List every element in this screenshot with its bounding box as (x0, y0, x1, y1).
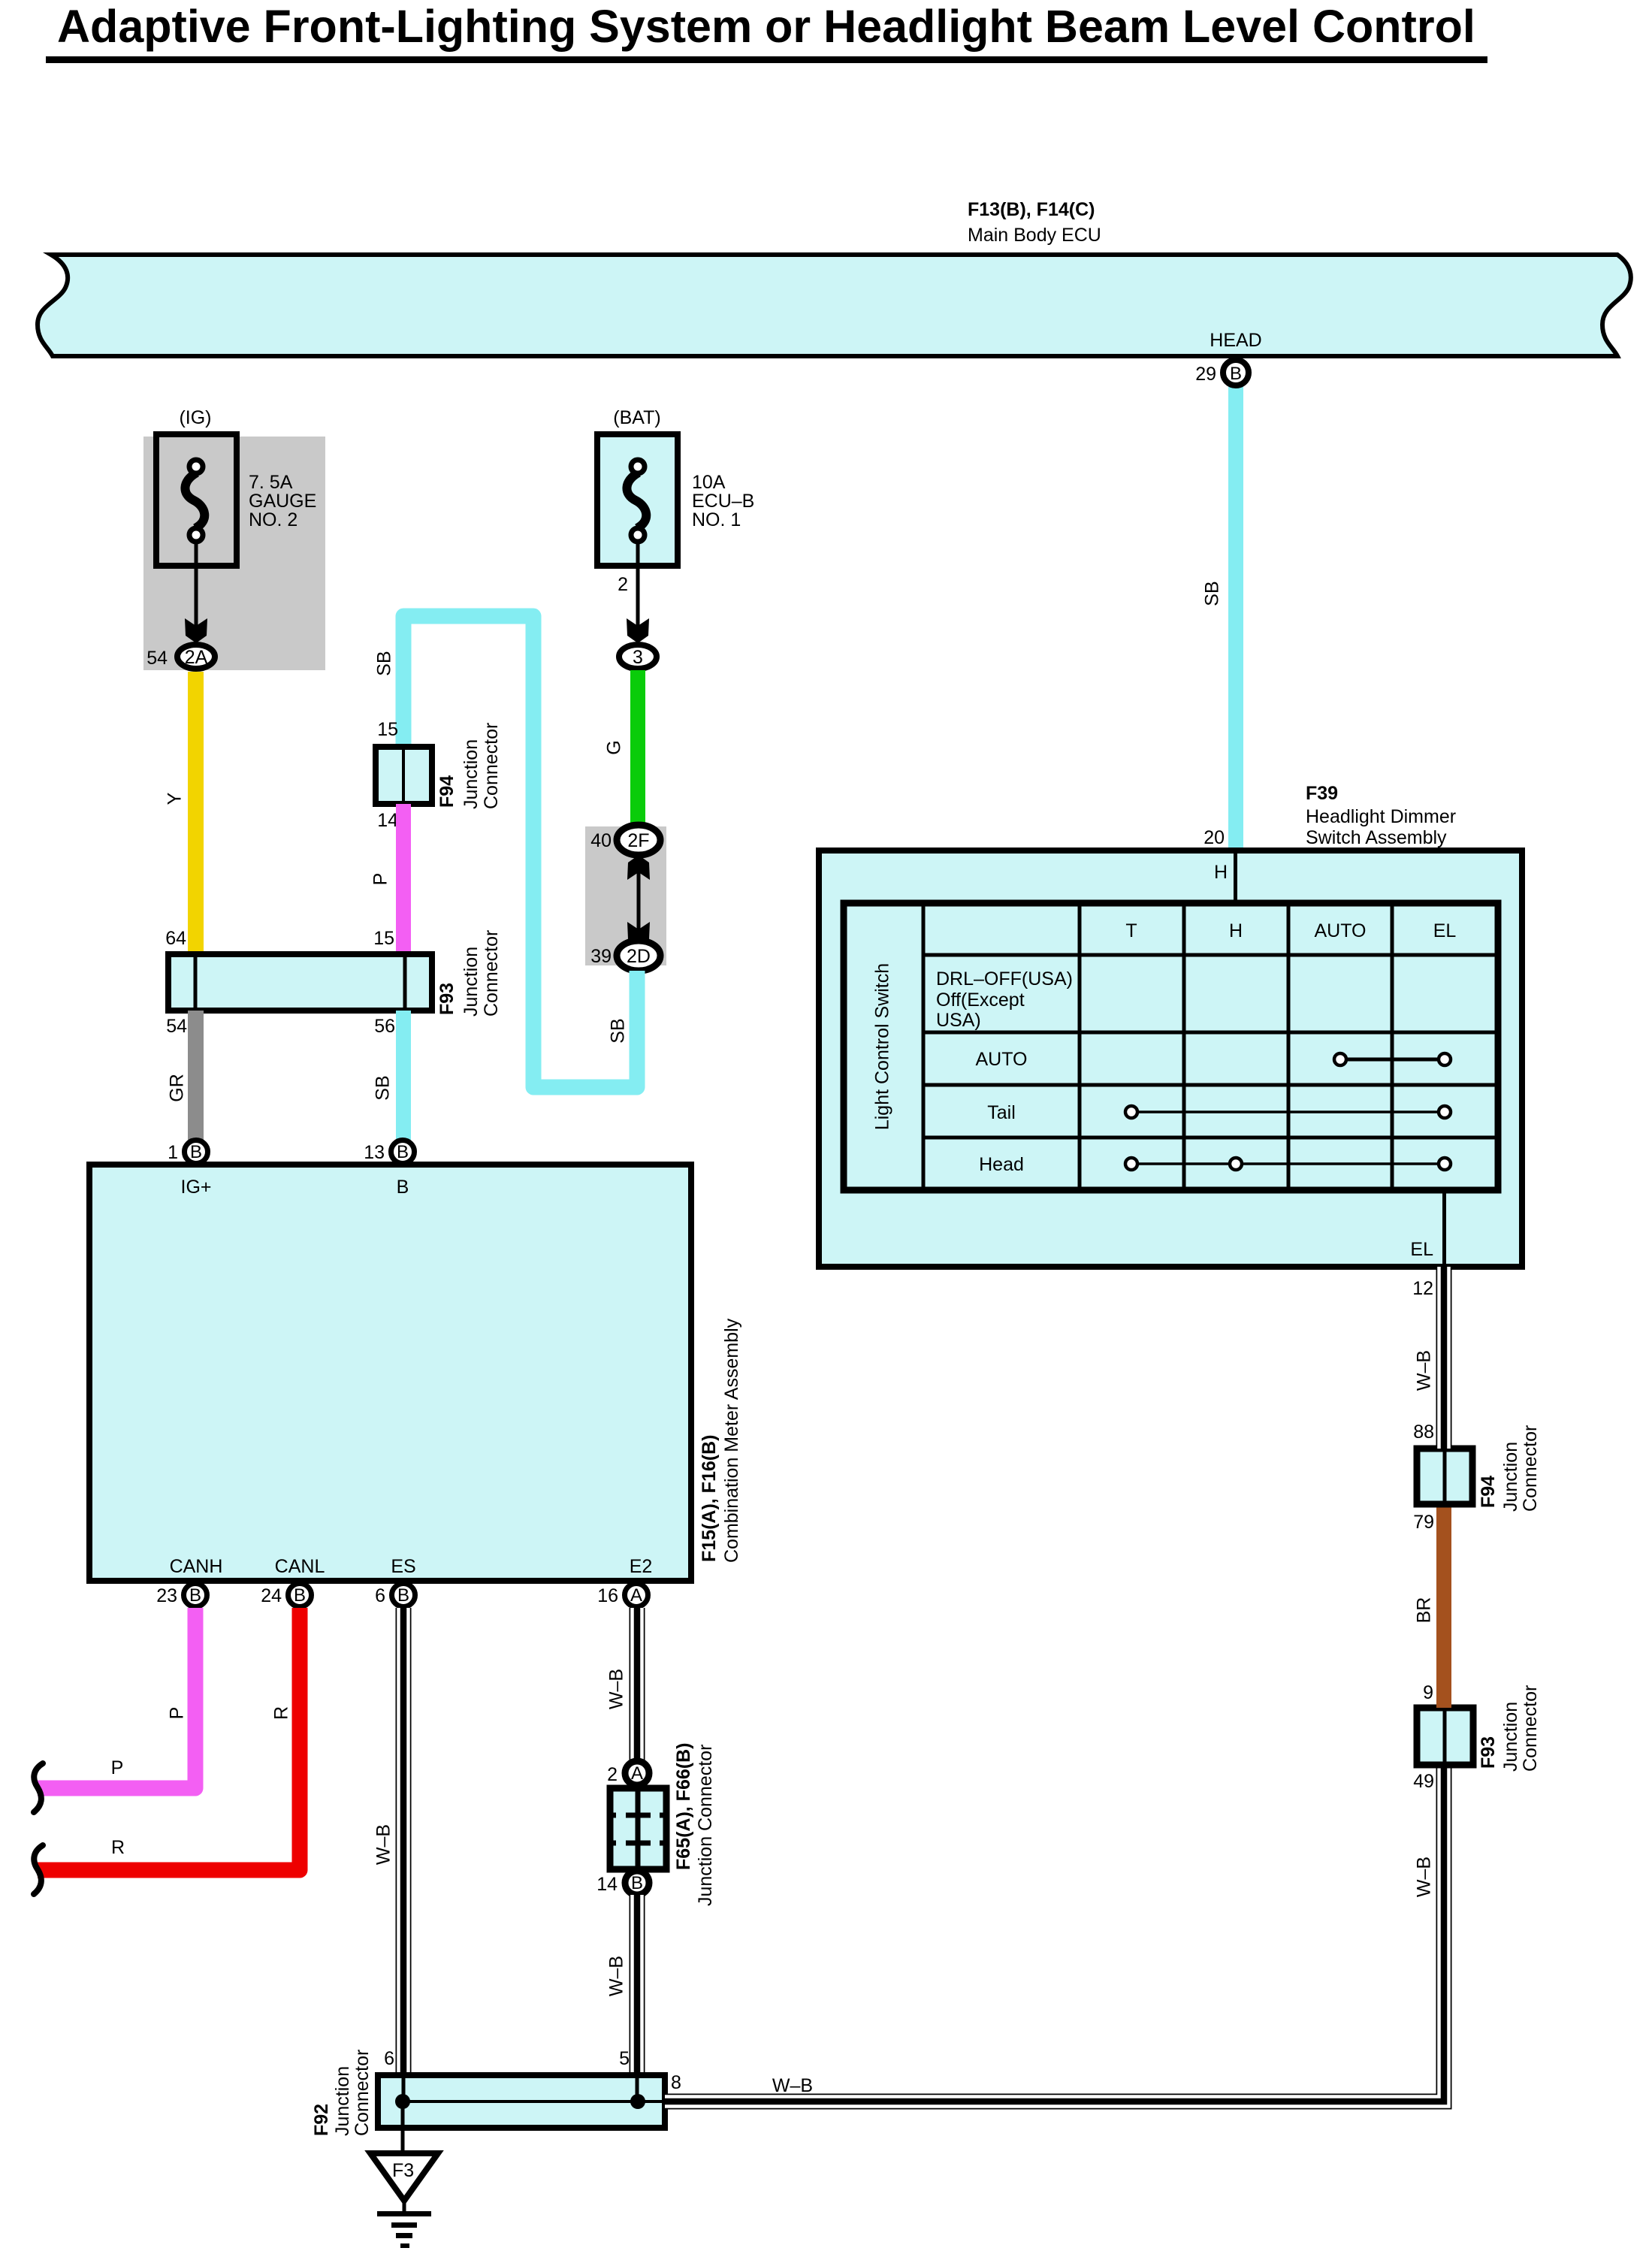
svg-text:Light Control Switch: Light Control Switch (872, 963, 893, 1130)
svg-text:12: 12 (1412, 1278, 1433, 1299)
terminal 3 (619, 645, 657, 669)
svg-text:EL: EL (1433, 920, 1457, 941)
svg-text:Off(Except: Off(Except (936, 990, 1025, 1011)
ground F3 (370, 2101, 438, 2248)
meter pin 23 B (156, 1584, 207, 1607)
svg-text:Junction: Junction (461, 947, 482, 1017)
svg-text:54: 54 (146, 648, 168, 669)
svg-text:W–B: W–B (373, 1824, 394, 1865)
svg-text:8: 8 (671, 2072, 681, 2093)
svg-text:29: 29 (1195, 364, 1216, 385)
svg-text:CANH: CANH (170, 1556, 223, 1577)
wire W-B from meter ES to F92 pin 6 (373, 1608, 403, 2075)
wire SB from Main Body ECU pin 29 to F39 pin 20 (1228, 382, 1243, 852)
svg-text:49: 49 (1413, 1771, 1434, 1792)
wire GR from F93 to meter pin 1 (188, 1011, 204, 1140)
svg-text:F93: F93 (1478, 1736, 1499, 1769)
svg-text:NO. 2: NO. 2 (249, 509, 297, 530)
svg-text:10A: 10A (692, 472, 726, 493)
terminal 39 2D (590, 941, 660, 971)
svg-text:56: 56 (374, 1016, 395, 1037)
svg-text:F94: F94 (436, 775, 458, 808)
svg-text:B: B (397, 1585, 409, 1606)
svg-text:EL: EL (1410, 1239, 1433, 1260)
svg-text:T: T (1125, 920, 1137, 941)
svg-text:6: 6 (384, 2048, 394, 2069)
svg-text:Headlight Dimmer: Headlight Dimmer (1306, 806, 1456, 827)
svg-text:(IG): (IG) (179, 407, 211, 428)
wire P from meter CANH (34, 1608, 195, 1812)
terminal 40 2F (590, 825, 660, 855)
wire W-B from meter E2 to F65 pin 2 (606, 1608, 637, 1763)
svg-text:W–B: W–B (606, 1956, 627, 1996)
svg-text:W–B: W–B (772, 2075, 813, 2096)
svg-text:SB: SB (373, 1075, 394, 1100)
svg-text:5: 5 (619, 2048, 630, 2069)
svg-text:3: 3 (633, 647, 643, 668)
svg-text:Connector: Connector (481, 930, 502, 1017)
wire BR from F94 to F93 (right) (1414, 1504, 1451, 1708)
svg-text:40: 40 (590, 830, 612, 851)
svg-text:6: 6 (375, 1585, 385, 1606)
meter pin 13 B (364, 1141, 414, 1164)
arrow from fuse BAT to terminal 3 (618, 542, 649, 643)
svg-text:BR: BR (1414, 1597, 1435, 1624)
svg-text:CANL: CANL (275, 1556, 325, 1577)
svg-text:Main Body ECU: Main Body ECU (968, 225, 1101, 246)
svg-text:7. 5A: 7. 5A (249, 472, 293, 493)
svg-text:Junction: Junction (1500, 1702, 1521, 1772)
svg-text:Connector: Connector (1520, 1425, 1541, 1512)
svg-text:W–B: W–B (606, 1669, 627, 1709)
svg-text:A: A (630, 1585, 642, 1606)
svg-text:B: B (397, 1142, 409, 1162)
svg-text:B: B (189, 1585, 201, 1606)
svg-text:GAUGE: GAUGE (249, 491, 316, 512)
svg-text:H: H (1229, 920, 1243, 941)
svg-text:2: 2 (607, 1764, 618, 1785)
meter pin 24 B (261, 1584, 311, 1607)
svg-text:Junction Connector: Junction Connector (695, 1745, 716, 1906)
wire W-B from F92 pin 8 right and up to F93 pin 49 (665, 1765, 1444, 2101)
svg-text:ECU–B: ECU–B (692, 491, 754, 512)
svg-text:IG+: IG+ (181, 1177, 212, 1198)
svg-text:15: 15 (373, 928, 394, 949)
svg-text:88: 88 (1413, 1422, 1434, 1443)
svg-text:Junction: Junction (332, 2066, 353, 2136)
svg-text:64: 64 (165, 928, 186, 949)
svg-text:B: B (190, 1142, 202, 1162)
junction connector F93 (middle) (165, 928, 502, 1037)
svg-text:Adaptive Front-Lighting System: Adaptive Front-Lighting System or Headli… (57, 1, 1475, 52)
svg-text:P: P (111, 1757, 124, 1778)
terminal 54 2A (146, 645, 215, 669)
wire W-B from F39 pin 12 to F94 pin 88 (1414, 1267, 1444, 1449)
meter pin 1 B (168, 1141, 207, 1164)
svg-text:2F: 2F (627, 830, 649, 851)
svg-text:SB: SB (374, 651, 395, 675)
wire P from F94 to F93 (396, 804, 411, 954)
svg-text:F65(A), F66(B): F65(A), F66(B) (673, 1743, 694, 1870)
wire SB loop from F94 up over to 2D (374, 616, 637, 1087)
svg-text:B: B (631, 1873, 643, 1893)
Main Body ECU banner F13(B), F14(C) (38, 199, 1631, 356)
svg-text:DRL–OFF(USA): DRL–OFF(USA) (936, 968, 1073, 990)
pin 29 B of Main Body ECU (1195, 360, 1249, 385)
svg-text:GR: GR (167, 1074, 188, 1102)
svg-text:B: B (294, 1585, 306, 1606)
svg-text:AUTO: AUTO (976, 1049, 1028, 1070)
svg-text:F92: F92 (311, 2104, 332, 2136)
wire G from terminal 3 to 2F (630, 670, 645, 827)
svg-text:R: R (271, 1706, 292, 1720)
gray block around 2F/2D (585, 826, 666, 965)
svg-text:R: R (111, 1837, 125, 1858)
junction connector F94 (top middle) (376, 719, 502, 831)
svg-text:2D: 2D (627, 946, 651, 967)
svg-text:ES: ES (391, 1556, 415, 1577)
svg-text:14: 14 (377, 810, 398, 831)
svg-text:H: H (1214, 862, 1228, 883)
svg-text:Switch Assembly: Switch Assembly (1306, 827, 1447, 848)
meter pin 16 A (597, 1584, 648, 1607)
svg-text:54: 54 (166, 1016, 187, 1037)
svg-text:E2: E2 (630, 1556, 653, 1577)
svg-text:F93: F93 (436, 983, 458, 1015)
svg-text:HEAD: HEAD (1210, 330, 1261, 351)
arrow from fuse IG to terminal 2A (185, 542, 207, 643)
switch contacts Head row (1125, 1158, 1451, 1170)
wire W-B from F65 pin 14 to F92 pin 5 (606, 1895, 637, 2075)
fuse 7.5A GAUGE NO.2 (IG) (143, 407, 325, 670)
svg-text:Connector: Connector (1520, 1685, 1541, 1772)
svg-text:W–B: W–B (1414, 1857, 1435, 1897)
switch contacts AUTO row (1334, 1053, 1451, 1065)
svg-text:F3: F3 (392, 2160, 414, 2181)
svg-text:Combination Meter Assembly: Combination Meter Assembly (721, 1318, 742, 1563)
svg-text:Y: Y (165, 792, 186, 805)
svg-text:13: 13 (364, 1142, 385, 1163)
svg-text:B: B (1230, 364, 1242, 384)
svg-text:G: G (604, 740, 625, 754)
junction connector F65(A), F66(B) (596, 1743, 716, 1906)
wire H inside F39 (1234, 851, 1237, 903)
svg-text:1: 1 (168, 1142, 178, 1163)
svg-text:14: 14 (596, 1874, 618, 1895)
combination meter assembly box F15(A), F16(B) (89, 1165, 742, 1581)
svg-text:F39: F39 (1306, 783, 1338, 804)
wire EL inside F39 (1442, 1190, 1446, 1267)
svg-text:Tail: Tail (987, 1102, 1016, 1123)
F39 Headlight Dimmer Switch Assembly box (819, 783, 1522, 1267)
svg-text:F13(B), F14(C): F13(B), F14(C) (968, 199, 1095, 220)
light control switch table (844, 903, 1498, 1190)
svg-text:NO. 1: NO. 1 (692, 509, 741, 530)
svg-text:Junction: Junction (1500, 1442, 1521, 1512)
svg-text:AUTO: AUTO (1315, 920, 1367, 941)
svg-text:24: 24 (261, 1585, 282, 1606)
svg-text:20: 20 (1204, 827, 1225, 848)
double arrow between 2F and 2D (627, 855, 650, 947)
junction connector F94 (right) (1413, 1422, 1541, 1533)
svg-text:16: 16 (597, 1585, 618, 1606)
svg-text:Connector: Connector (481, 723, 502, 809)
svg-text:15: 15 (377, 719, 398, 740)
wire Y from 2A to F93 (188, 672, 204, 954)
junction connector F93 (right) (1413, 1682, 1541, 1792)
wire SB from F93 to meter pin 13 (396, 1011, 411, 1140)
svg-text:W–B: W–B (1414, 1350, 1435, 1391)
svg-text:23: 23 (156, 1585, 177, 1606)
svg-text:F15(A), F16(B): F15(A), F16(B) (699, 1435, 720, 1562)
svg-text:USA): USA) (936, 1010, 981, 1031)
svg-text:(BAT): (BAT) (613, 407, 660, 428)
svg-text:2A: 2A (185, 647, 208, 668)
meter pin 6 B (375, 1584, 415, 1607)
svg-text:Junction: Junction (461, 739, 482, 809)
svg-text:79: 79 (1413, 1512, 1434, 1533)
svg-text:SB: SB (608, 1018, 629, 1043)
junction connector F92 (311, 2048, 665, 2136)
wire R from meter CANL (34, 1608, 300, 1894)
svg-text:Connector: Connector (352, 2050, 373, 2136)
svg-text:39: 39 (590, 946, 612, 967)
svg-text:9: 9 (1423, 1682, 1433, 1703)
svg-text:Head: Head (979, 1154, 1024, 1175)
svg-text:P: P (370, 873, 391, 886)
svg-text:2: 2 (618, 574, 628, 595)
fuse 10A ECU-B NO.1 (BAT) (597, 407, 754, 566)
svg-text:P: P (167, 1707, 188, 1720)
svg-text:B: B (397, 1177, 409, 1198)
svg-text:A: A (631, 1763, 643, 1784)
svg-text:SB: SB (1202, 581, 1223, 606)
switch contacts Tail row (1125, 1106, 1451, 1118)
svg-text:F94: F94 (1478, 1476, 1499, 1508)
